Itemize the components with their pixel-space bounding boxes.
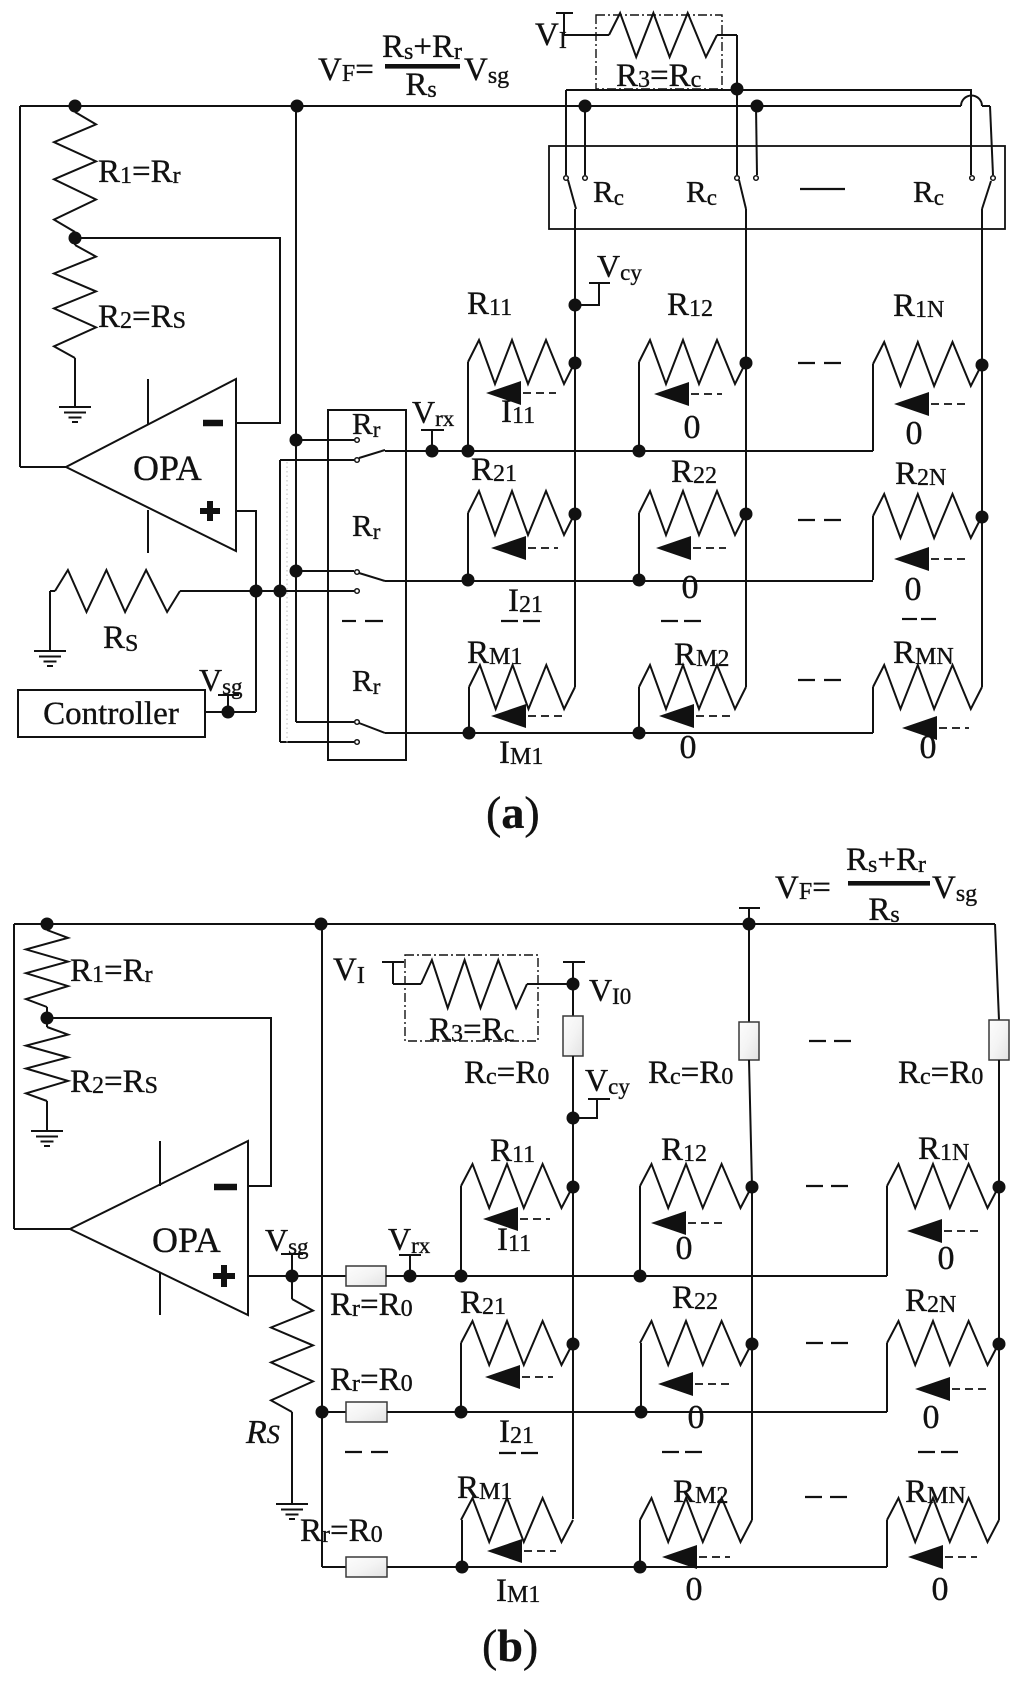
- label Rr=R0 rowM (b): [300, 1513, 383, 1549]
- svg-text:0: 0: [920, 729, 937, 766]
- svg-text:R1=Rr: R1=Rr: [70, 953, 153, 989]
- svg-text:Rc=R0: Rc=R0: [464, 1055, 549, 1091]
- ground under R2 (b): [31, 1131, 63, 1146]
- caption (a): [486, 787, 540, 838]
- wire: row M (b): [387, 1566, 887, 1568]
- label OPA (b): [152, 1220, 221, 1260]
- ground under R2 (a): [59, 407, 91, 422]
- current label under RMN (b): [932, 1571, 949, 1608]
- label VI (a): [535, 17, 567, 54]
- label RM1 (b): [457, 1470, 512, 1506]
- resistor R2 (a): [54, 238, 96, 406]
- resistor RM1 (a): [463, 665, 576, 740]
- label R2N (b): [905, 1283, 956, 1319]
- current arrow RMN (b): [908, 1545, 977, 1569]
- label Vrx (b): [388, 1221, 431, 1258]
- wire: VI rail y=90 (a): [566, 90, 971, 175]
- label R12 (b): [661, 1132, 707, 1168]
- source tick above VI0 (b): [563, 962, 585, 984]
- current arrow R21 (b): [485, 1365, 553, 1389]
- op-amp plus sign (b): [213, 1265, 235, 1287]
- label R2=Rs (a): [98, 299, 186, 335]
- op-amp minus sign (b): [214, 1184, 237, 1191]
- switch col1 contacts (a): [564, 176, 588, 181]
- wire: VF top rail (a): [20, 96, 993, 175]
- wire: column 1 vertical (b): [572, 1056, 574, 1519]
- caption (b): [482, 1620, 538, 1671]
- ground under Rs (b): [276, 1504, 308, 1519]
- label R1N (b): [918, 1131, 969, 1167]
- label Rc=R0 col2 (b): [648, 1055, 733, 1091]
- label R3=Rc (a): [616, 58, 701, 94]
- current label under RM1 (b): [496, 1573, 540, 1609]
- resistor R1N (b): [887, 1164, 1006, 1276]
- wire: Vsg to row switches (a): [256, 590, 354, 592]
- current label under R12 (b): [676, 1230, 693, 1267]
- current label under R12 (a): [684, 409, 701, 446]
- node: controller output (a): [222, 706, 235, 719]
- label R12 (a): [667, 287, 713, 323]
- current arrow R1N (b): [907, 1219, 980, 1243]
- formula VF=(Rs+Rr)/Rs*Vsg (b): [775, 842, 977, 928]
- node: R1-R2 junction (b): [41, 1012, 54, 1025]
- wire: VF top rail (b): [14, 924, 999, 1020]
- label VI0 (b): [589, 972, 631, 1009]
- label Rr rowM (a): [352, 663, 381, 699]
- label Vsg (b): [265, 1222, 309, 1259]
- node: col2 top tap (b): [743, 918, 756, 931]
- resistor RMN (b): [887, 1498, 999, 1567]
- resistor Rc colN rect (b): [989, 1020, 1009, 1060]
- wire: Vsg down to controller (a): [205, 591, 256, 712]
- node: VF feeder row2 (a): [290, 565, 303, 578]
- svg-text:RS: RS: [245, 1414, 280, 1451]
- current label under R2N (a): [905, 571, 922, 608]
- switch row1 contacts (a): [355, 438, 360, 463]
- resistor R12 (b): [634, 1164, 759, 1283]
- label RM1 (a): [467, 635, 522, 671]
- source Vcy symbol (a): [569, 283, 611, 312]
- label Rc colN (a): [913, 174, 944, 210]
- label Rr=R0 row1 (b): [330, 1287, 413, 1323]
- switch row1 lever (a): [359, 450, 385, 458]
- wire: OPA+ to row1 (b): [248, 1275, 346, 1277]
- wire: col2 stubs (a): [737, 89, 757, 175]
- row switch box (a): [328, 410, 406, 760]
- current label under R11 (a): [501, 394, 535, 430]
- resistor R2N (a): [873, 494, 989, 580]
- svg-text:0: 0: [684, 409, 701, 446]
- formula VF=(Rs+Rr)/Rs*Vsg (a): [318, 29, 509, 103]
- resistor Rr row2 rect (b): [346, 1402, 387, 1422]
- svg-text:Rs+Rr: Rs+Rr: [846, 842, 926, 878]
- label R3=Rc (b): [429, 1012, 514, 1048]
- current arrow R2N (a): [894, 547, 967, 571]
- node: Vsg node (a): [250, 585, 263, 598]
- label R2=Rs (b): [70, 1064, 158, 1100]
- wire: Vsg feeder vertical (a): [280, 460, 354, 742]
- svg-text:OPA: OPA: [152, 1220, 221, 1260]
- node: Vrx on row1 (b): [404, 1270, 417, 1283]
- ground under Rs (a): [34, 651, 66, 666]
- label R1N (a): [893, 288, 944, 324]
- faint dotted line (a): [286, 462, 288, 744]
- svg-text:0: 0: [680, 729, 697, 766]
- dash in column box (a): [800, 188, 845, 190]
- wire: column 2 upper (b): [748, 924, 750, 1022]
- source tick above col2 (b): [739, 908, 760, 924]
- label R2N (a): [895, 456, 946, 492]
- switch rowM contacts (a): [355, 720, 360, 745]
- svg-text:0: 0: [682, 569, 699, 606]
- wire: row 1 (a): [385, 450, 873, 452]
- dash-dot box around R3 (b): [405, 955, 538, 1041]
- node: R3 output junction (a): [731, 83, 744, 96]
- resistor Rr rowM rect (b): [346, 1557, 387, 1577]
- node: col2 VF tap (a): [751, 100, 764, 113]
- svg-text:R3=Rc: R3=Rc: [616, 58, 701, 94]
- label RMN (b): [905, 1474, 966, 1510]
- ellipsis dashes col-gap rowM (a): [798, 679, 841, 681]
- node: VF vertical junction (a): [291, 100, 304, 113]
- resistor R11 (b): [455, 1164, 580, 1283]
- svg-text:Controller: Controller: [43, 696, 179, 732]
- switch col1 lever (a): [568, 180, 576, 209]
- switch row2 lever (a): [359, 573, 385, 581]
- switch row2 contacts (a): [355, 570, 360, 594]
- resistor Rc col2 rect (b): [739, 1022, 759, 1060]
- resistor R2 (b): [26, 1018, 68, 1131]
- wire: col1 stubs (a): [566, 90, 585, 175]
- svg-text:0: 0: [905, 571, 922, 608]
- current label under R22 (b): [688, 1399, 705, 1436]
- label RMN (a): [893, 635, 954, 671]
- resistor R3 (a): [609, 13, 737, 89]
- node: VF feeder row2 (b): [316, 1406, 329, 1419]
- current arrow R12 (a): [654, 382, 722, 406]
- source VI symbol (b): [382, 962, 421, 984]
- label Vcy (a): [597, 248, 642, 285]
- ellipsis dashes col-gap row2 (a): [798, 519, 841, 521]
- label R22 (a): [671, 454, 717, 490]
- current arrow R21 (a): [491, 536, 558, 560]
- wire: row 1 (b): [386, 1275, 887, 1277]
- resistor R3 (b): [421, 960, 573, 1008]
- label R1=Rr (a): [98, 154, 181, 190]
- ellipsis dashes col-gap Rc row (b): [809, 1040, 851, 1042]
- label R21 (a): [471, 452, 517, 488]
- label RM2 (b): [673, 1474, 728, 1510]
- current arrow RM1 (a): [491, 704, 565, 728]
- current arrow RM2 (a): [659, 704, 730, 728]
- svg-text:R1=Rr: R1=Rr: [98, 154, 181, 190]
- label Vcy (b): [585, 1062, 630, 1099]
- node: VF-R1 junction (b): [41, 918, 54, 931]
- svg-text:0: 0: [676, 1230, 693, 1267]
- node: col1 VF tap (a): [579, 100, 592, 113]
- source Vrx symbol (a): [421, 430, 444, 451]
- dashes in row box (a): [342, 620, 383, 622]
- label Rc col1 (a): [593, 174, 624, 210]
- node: VF feeder tap (b): [315, 918, 328, 931]
- wire: OPA+ to Vsg node (a): [236, 511, 256, 591]
- label R21 (b): [460, 1285, 506, 1321]
- wire: column 2 vertical (a): [745, 209, 747, 687]
- svg-text:0: 0: [932, 1571, 949, 1608]
- resistor RMN (a): [873, 665, 982, 733]
- switch col2 contacts (a): [735, 176, 759, 181]
- switch colN contacts (a): [970, 176, 996, 181]
- ellipsis dashes row-gap col2 (b): [662, 1451, 702, 1453]
- resistor Rc col1 rect (b): [563, 1016, 583, 1056]
- current label under R2N (b): [923, 1399, 940, 1436]
- current label under RM2 (b): [686, 1571, 703, 1608]
- source Vrx symbol (b): [399, 1255, 421, 1276]
- ellipsis dashes col-gap row1 (a): [798, 362, 841, 364]
- ellipsis dashes row-gap colN (b): [918, 1451, 958, 1453]
- resistor RM1 (b): [456, 1498, 574, 1574]
- label RM2 (a): [674, 637, 729, 673]
- current arrow RM1 (b): [487, 1539, 556, 1563]
- wire: column 1 upper (b): [572, 984, 574, 1016]
- node: Vsg feed junction (a): [274, 585, 287, 598]
- ellipsis dashes row-gap col1 (a): [501, 620, 540, 622]
- label Rs (a): [103, 620, 138, 657]
- wire: feedback to OPA- (a): [75, 238, 280, 423]
- label Rc=R0 col1 (b): [464, 1055, 549, 1091]
- wire: row 2 (a): [385, 580, 873, 582]
- wire: row 2 (b): [387, 1411, 887, 1413]
- node: R1-R2 junction (a): [69, 232, 82, 245]
- op-amp plus sign (a): [200, 501, 220, 521]
- resistor RM2 (b): [634, 1498, 753, 1574]
- wire: feedback to OPA- (b): [47, 1018, 271, 1186]
- node: VF-R1 junction (a): [69, 100, 82, 113]
- resistor Rs (a): [50, 570, 256, 651]
- wire: column 1 vertical (a): [574, 209, 576, 687]
- label Vsg (a): [199, 662, 243, 699]
- resistor R1N (a): [873, 342, 989, 451]
- resistor Rr row1 rect (b): [346, 1266, 386, 1286]
- svg-text:(b): (b): [482, 1620, 538, 1671]
- op-amp OPA triangle (a): [66, 379, 236, 553]
- svg-text:Rs+Rr: Rs+Rr: [382, 29, 462, 65]
- svg-text:Rr=R0: Rr=R0: [330, 1362, 413, 1398]
- switch rowM lever (a): [359, 723, 385, 733]
- resistor RM2 (a): [633, 665, 747, 740]
- label R22 (b): [672, 1280, 718, 1316]
- wire: column N vertical (b): [998, 1060, 1000, 1520]
- svg-text:OPA: OPA: [133, 448, 202, 488]
- current label under R22 (a): [682, 569, 699, 606]
- label VI (b): [333, 952, 365, 989]
- label OPA (a): [133, 448, 202, 488]
- ellipsis dashes col-gap rowM (b): [805, 1496, 847, 1498]
- node: VF feeder row1 (a): [290, 434, 303, 447]
- wire: column N vertical (a): [981, 209, 983, 687]
- column switch box (a): [549, 146, 1005, 229]
- current arrow RMN (a): [902, 716, 969, 740]
- current label under R1N (a): [906, 415, 923, 452]
- svg-text:0: 0: [906, 415, 923, 452]
- current label under R11 (b): [497, 1222, 531, 1258]
- svg-text:0: 0: [923, 1399, 940, 1436]
- switch col2 lever (a): [739, 180, 746, 209]
- current arrow R1N (a): [894, 392, 967, 416]
- current arrow R11 (a): [486, 381, 556, 405]
- svg-text:Rr=R0: Rr=R0: [330, 1287, 413, 1323]
- current arrow RM2 (b): [662, 1545, 730, 1569]
- resistor R22 (a): [633, 491, 753, 587]
- label Rr=R0 row2 (b): [330, 1362, 413, 1398]
- controller box (a): [18, 690, 205, 737]
- resistor R2N (b): [887, 1321, 1006, 1412]
- svg-text:R3=Rc: R3=Rc: [429, 1012, 514, 1048]
- label Controller (a): [43, 696, 179, 732]
- ellipsis dashes col-gap row2 (b): [806, 1342, 848, 1344]
- current label under RMN (a): [920, 729, 937, 766]
- svg-text:0: 0: [938, 1240, 955, 1277]
- current label under RM1 (a): [499, 735, 543, 771]
- current label under RM2 (a): [680, 729, 697, 766]
- svg-text:Rr=R0: Rr=R0: [300, 1513, 383, 1549]
- op-amp OPA triangle (b): [70, 1141, 248, 1315]
- current arrow R22 (a): [656, 536, 726, 560]
- wire: column 2 vertical (b): [749, 1060, 752, 1520]
- svg-text:0: 0: [688, 1399, 705, 1436]
- current arrow R11 (b): [483, 1207, 550, 1231]
- resistor R21 (a): [462, 491, 582, 587]
- current label under R1N (b): [938, 1240, 955, 1277]
- current arrow R2N (b): [915, 1377, 987, 1401]
- resistor R21 (b): [455, 1321, 580, 1419]
- ellipsis dashes row-gap colN (a): [902, 618, 936, 620]
- switch colN lever (a): [982, 181, 991, 209]
- resistor Rs (b): [271, 1276, 313, 1504]
- source Vcy symbol (b): [567, 1099, 611, 1125]
- resistor R1 (a): [54, 106, 96, 238]
- label Rc=R0 colN (b): [898, 1055, 983, 1091]
- resistor R1 (b): [26, 924, 68, 1018]
- svg-text:Rc=R0: Rc=R0: [648, 1055, 733, 1091]
- source Vsg symbol (a): [218, 695, 239, 712]
- resistor R11 (a): [462, 340, 582, 458]
- label Rr row1 (a): [352, 406, 381, 442]
- source VI symbol (a): [556, 13, 609, 35]
- label Vrx (a): [412, 394, 455, 431]
- label Rc col2 (a): [686, 174, 717, 210]
- ellipsis dashes row-gap left (b): [345, 1451, 388, 1453]
- ellipsis dashes col-gap row1 (b): [806, 1185, 848, 1187]
- op-amp minus sign (a): [203, 420, 223, 427]
- label Rr row2 (a): [352, 508, 381, 544]
- label RS (b): [245, 1414, 280, 1451]
- resistor R22 (b): [635, 1321, 759, 1419]
- wire: VF feeder vertical (b): [322, 924, 346, 1567]
- node: VI0 (b): [567, 978, 580, 991]
- label R11 (b): [490, 1133, 535, 1169]
- dash-dot box around R3 (a): [596, 15, 722, 89]
- current arrow R12 (b): [651, 1211, 727, 1235]
- current label under R21 (b): [499, 1414, 534, 1450]
- node: Vsg node (b): [286, 1270, 299, 1283]
- wire: row M (a): [385, 732, 873, 734]
- svg-text:Rc=R0: Rc=R0: [898, 1055, 983, 1091]
- source Vsg symbol (b): [281, 1254, 303, 1276]
- label R1=Rr (b): [70, 953, 153, 989]
- svg-text:(a): (a): [486, 787, 540, 838]
- current arrow R22 (b): [658, 1372, 734, 1396]
- wire: VF feeder vertical (a): [296, 106, 354, 722]
- wire: left rail / OPA output (a): [20, 106, 66, 467]
- wire: left rail / OPA output (b): [14, 924, 70, 1229]
- ellipsis dashes row-gap col2 (a): [661, 620, 701, 622]
- node: Vrx on row1 (a): [426, 445, 439, 458]
- label R11 (a): [467, 286, 512, 322]
- ellipsis dashes row-gap col1 (b): [499, 1452, 538, 1454]
- svg-text:0: 0: [686, 1571, 703, 1608]
- resistor R12 (a): [633, 340, 753, 458]
- current label under R21 (a): [508, 583, 543, 619]
